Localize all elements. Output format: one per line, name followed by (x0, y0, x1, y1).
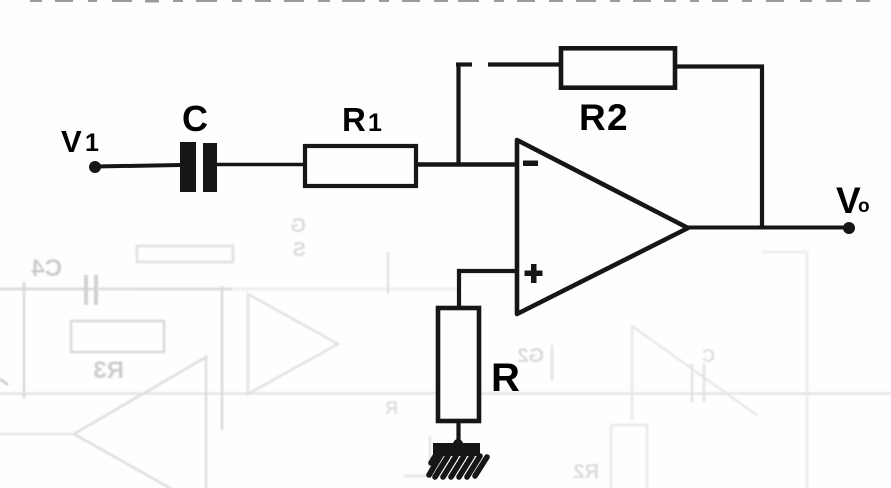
svg-text:C: C (702, 346, 715, 366)
svg-text:C: C (182, 98, 208, 139)
op-amp inverting input '-' sign (523, 161, 538, 167)
wire non-inverting input to R (459, 271, 517, 308)
label V1 (61, 124, 99, 159)
wire R1 to op-amp inverting input (418, 162, 517, 167)
wire op-amp output to Vo (688, 226, 846, 230)
svg-text:R2: R2 (573, 461, 599, 483)
resistor R1 (305, 146, 416, 186)
svg-text:S: S (293, 239, 306, 261)
wire R to ground (456, 421, 460, 447)
svg-text:G2: G2 (517, 345, 544, 367)
svg-text:R: R (385, 398, 398, 418)
svg-text:G: G (290, 215, 306, 237)
svg-text:2: 2 (607, 97, 628, 138)
capacitor C (180, 142, 217, 192)
op-amp U1 (517, 140, 688, 314)
wire R2 right to output node (675, 67, 762, 229)
wire feedback left branch (inverting node up to R2, dashed by scan) (456, 63, 561, 166)
svg-text:R: R (491, 356, 520, 400)
label R1 (342, 101, 382, 138)
wire C to R1 (217, 163, 304, 166)
op-amp non-inverting input '+' sign (525, 264, 543, 283)
svg-text:o: o (858, 196, 870, 217)
ground (429, 439, 487, 477)
wire V1 to C (95, 165, 181, 167)
node Vo (output terminal) (843, 222, 855, 234)
svg-text:C4: C4 (31, 255, 62, 282)
svg-text:R3: R3 (93, 357, 124, 384)
svg-text:1: 1 (85, 129, 99, 157)
svg-text:V: V (61, 124, 82, 159)
resistor R (438, 308, 479, 421)
svg-text:R: R (579, 97, 606, 138)
svg-text:R: R (342, 101, 366, 138)
node V1 (input terminal) (89, 161, 101, 173)
resistor R2 (561, 48, 675, 87)
svg-text:1: 1 (368, 109, 382, 137)
label Vo (836, 180, 870, 221)
